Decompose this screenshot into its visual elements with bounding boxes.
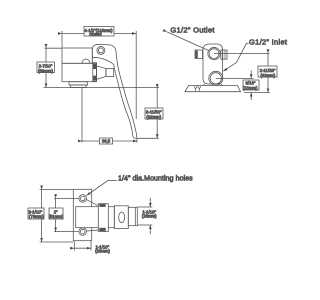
svg-text:(62mm): (62mm) bbox=[260, 73, 275, 78]
svg-text:G1/2" Inlet: G1/2" Inlet bbox=[249, 38, 288, 47]
svg-text:(29mm): (29mm) bbox=[95, 249, 110, 254]
svg-text:1/4" dia.Mounting holes: 1/4" dia.Mounting holes bbox=[118, 175, 193, 182]
svg-text:(23mm): (23mm) bbox=[243, 86, 258, 91]
svg-text:36,5: 36,5 bbox=[102, 139, 111, 144]
svg-text:(28mm): (28mm) bbox=[142, 213, 157, 218]
svg-text:closed: closed bbox=[89, 32, 102, 37]
svg-text:(79mm): (79mm) bbox=[29, 214, 44, 219]
svg-text:(82mm): (82mm) bbox=[146, 115, 161, 120]
svg-text:(51mm): (51mm) bbox=[49, 214, 64, 219]
svg-text:(59mm): (59mm) bbox=[38, 69, 53, 74]
svg-text:G1/2" Outlet: G1/2" Outlet bbox=[170, 25, 215, 34]
